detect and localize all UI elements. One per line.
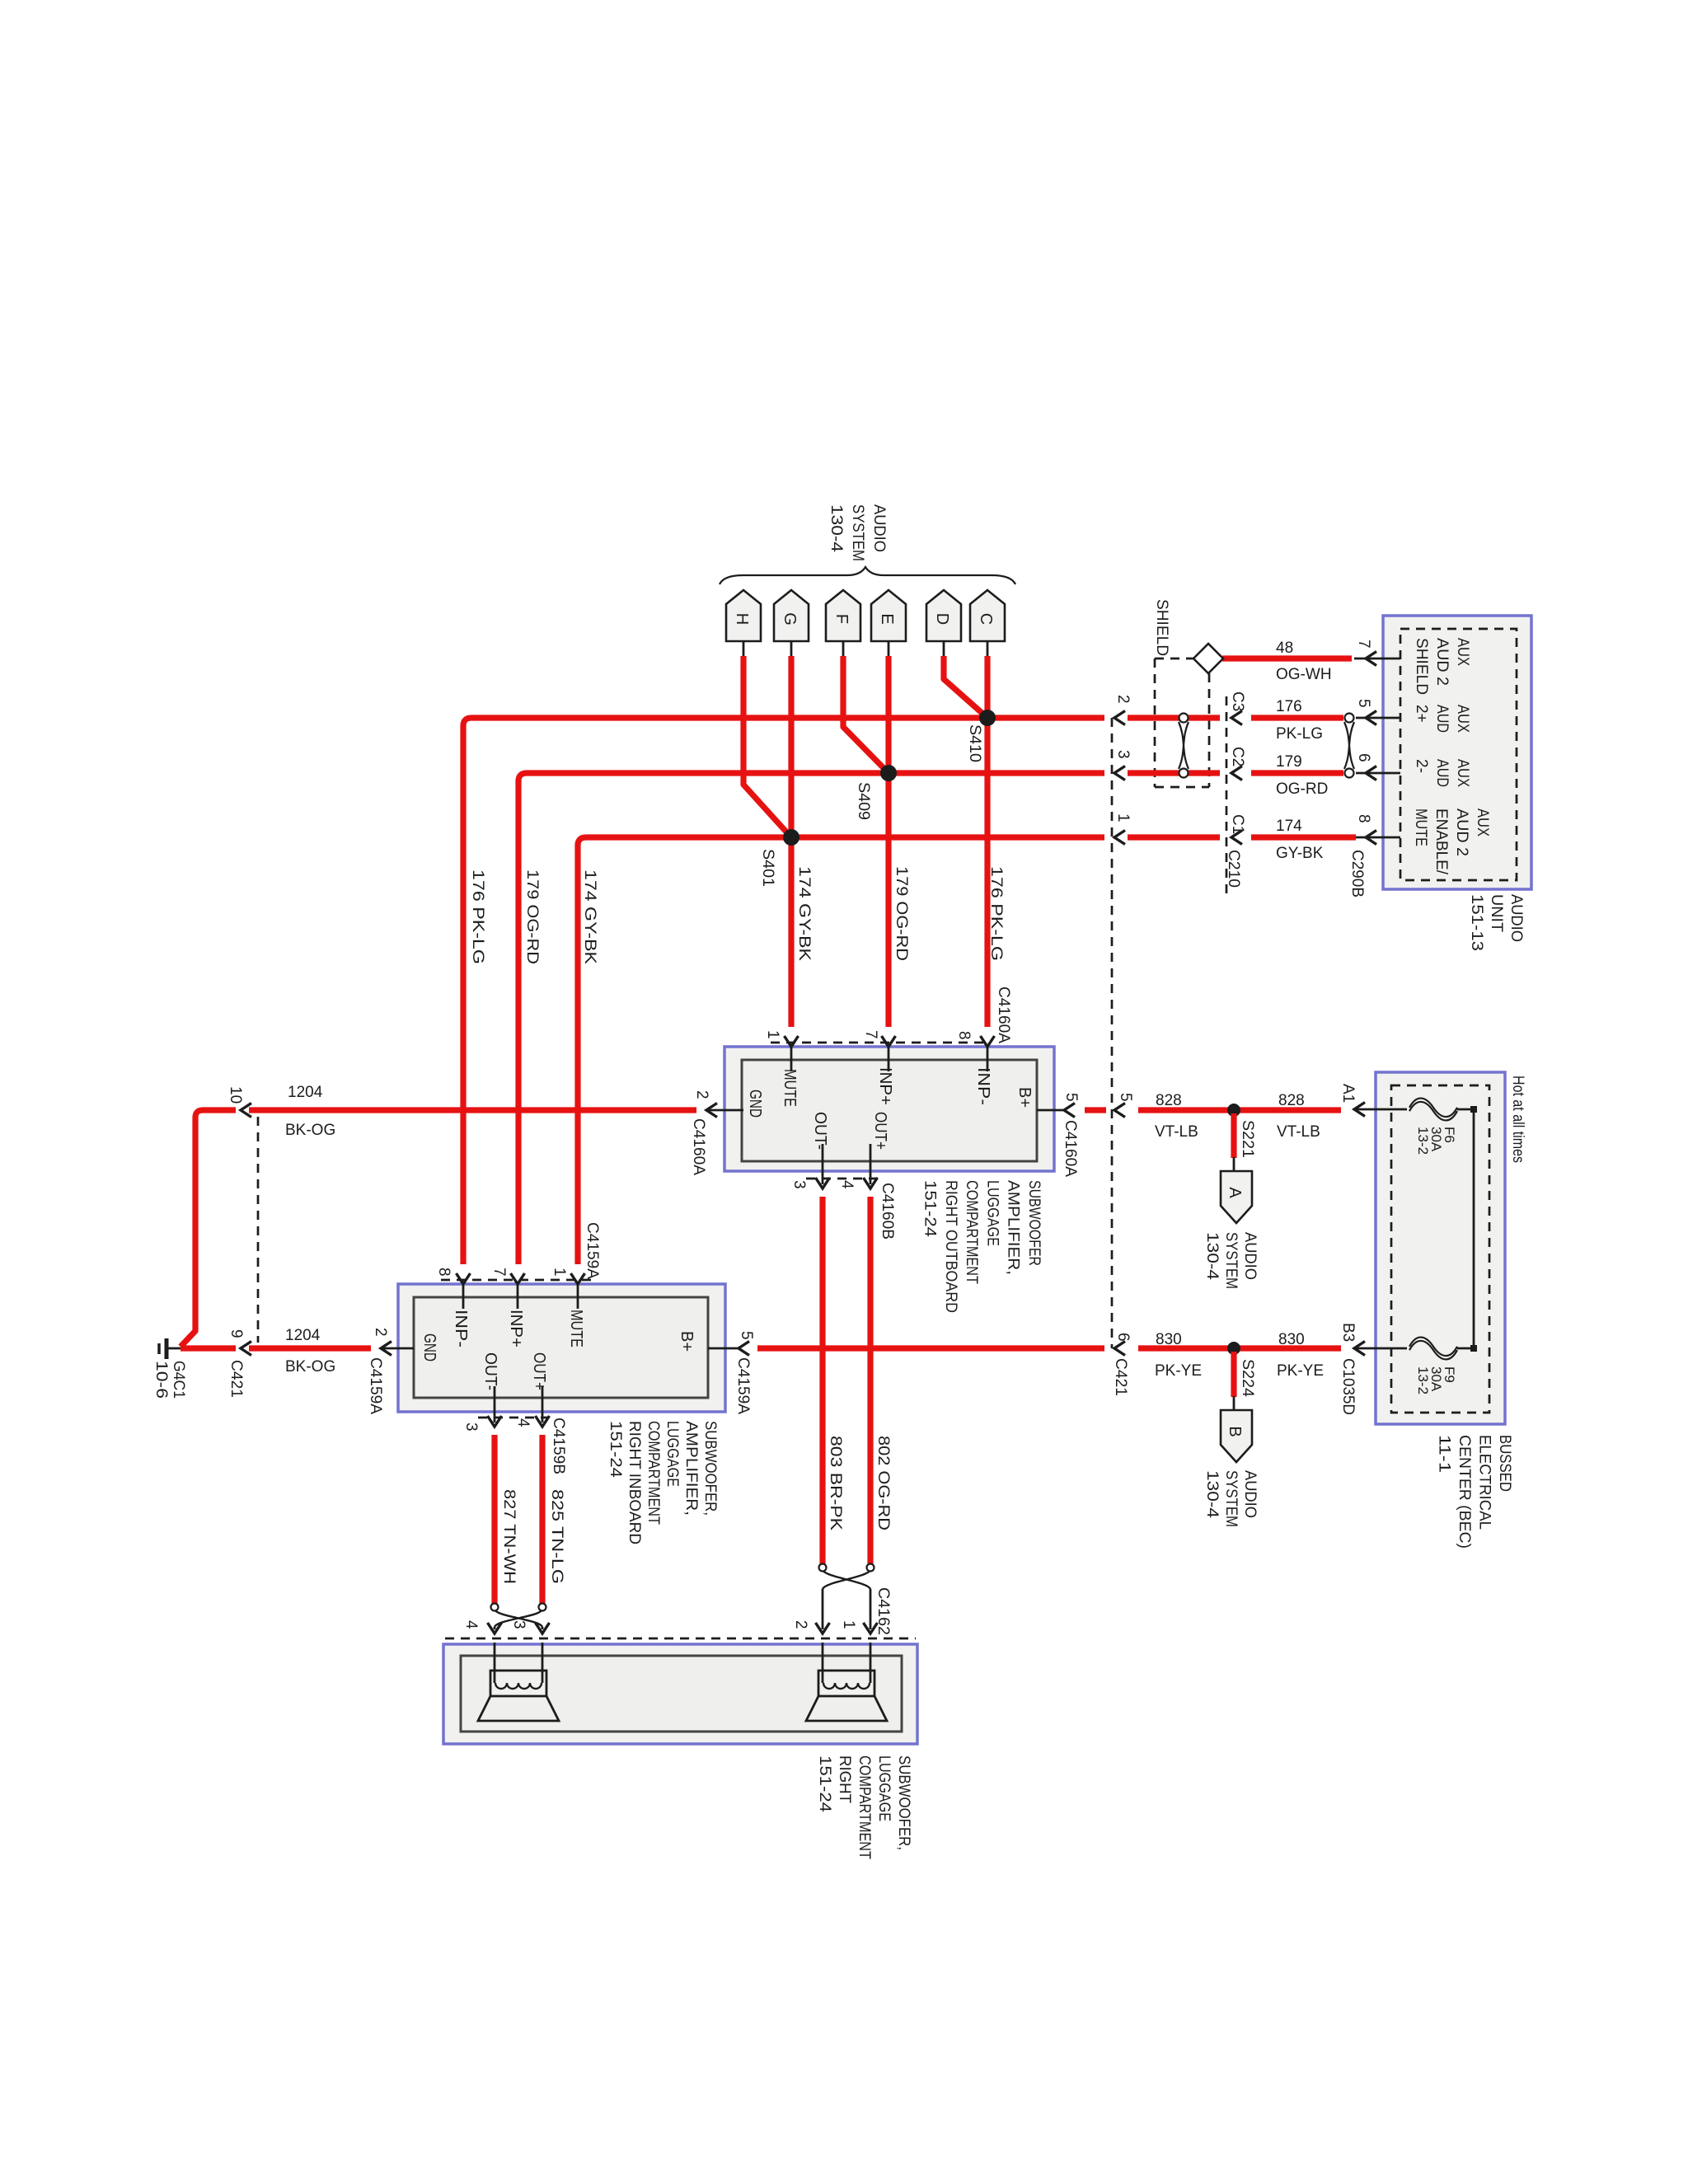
svg-text:PK-YE: PK-YE [1155, 1362, 1202, 1380]
svg-text:BK-OG: BK-OG [285, 1358, 335, 1376]
svg-text:PK-LG: PK-LG [1276, 725, 1323, 743]
svg-text:C1035D: C1035D [1339, 1358, 1357, 1415]
svg-text:OUT-: OUT- [811, 1112, 829, 1150]
svg-text:AUX: AUX [1454, 759, 1471, 787]
svg-text:OUT+: OUT+ [871, 1112, 889, 1150]
svg-text:C4160A: C4160A [995, 987, 1012, 1043]
svg-text:GND: GND [420, 1333, 438, 1361]
svg-text:C4162: C4162 [874, 1587, 892, 1635]
svg-text:5: 5 [1117, 1093, 1134, 1102]
svg-text:4: 4 [462, 1620, 480, 1629]
svg-text:AMPLIFIER,: AMPLIFIER, [1005, 1180, 1022, 1275]
svg-text:13-2: 13-2 [1415, 1127, 1431, 1155]
svg-text:151-24: 151-24 [921, 1180, 939, 1237]
svg-text:3: 3 [462, 1422, 480, 1432]
svg-text:H: H [733, 613, 751, 625]
svg-text:5: 5 [738, 1331, 755, 1340]
svg-text:C210: C210 [1225, 850, 1242, 888]
svg-text:S409: S409 [855, 782, 872, 820]
svg-text:4: 4 [838, 1180, 856, 1189]
svg-text:1: 1 [840, 1620, 857, 1629]
svg-text:AUD 2: AUD 2 [1453, 808, 1470, 856]
svg-text:C421: C421 [227, 1360, 245, 1398]
svg-text:SUBWOOFER,: SUBWOOFER, [701, 1421, 719, 1516]
svg-text:VT-LB: VT-LB [1155, 1123, 1198, 1141]
svg-text:C2: C2 [1229, 747, 1246, 766]
svg-text:174: 174 [1276, 818, 1302, 835]
svg-text:AUD 2: AUD 2 [1433, 638, 1451, 686]
svg-text:S224: S224 [1239, 1359, 1256, 1397]
svg-text:AUX: AUX [1474, 808, 1491, 837]
svg-text:7: 7 [862, 1030, 879, 1039]
svg-text:802 OG-RD: 802 OG-RD [874, 1436, 892, 1530]
svg-text:8: 8 [955, 1031, 973, 1040]
svg-text:SUBWOOFER,: SUBWOOFER, [895, 1755, 912, 1850]
svg-text:COMPARTMENT: COMPARTMENT [645, 1421, 662, 1525]
svg-text:48: 48 [1276, 640, 1293, 657]
svg-text:130-4: 130-4 [1203, 1470, 1221, 1518]
svg-text:1: 1 [1114, 813, 1132, 823]
svg-text:9: 9 [227, 1329, 245, 1338]
svg-text:151-24: 151-24 [816, 1755, 833, 1812]
svg-text:MUTE: MUTE [1412, 808, 1429, 846]
svg-text:1204: 1204 [285, 1327, 321, 1344]
svg-text:C4159A: C4159A [367, 1357, 384, 1414]
svg-text:INP-: INP- [974, 1067, 992, 1105]
svg-text:AUDIO: AUDIO [1241, 1470, 1259, 1518]
svg-text:5: 5 [1062, 1093, 1080, 1102]
svg-text:AUX: AUX [1454, 705, 1471, 733]
svg-text:RIGHT OUTBOARD: RIGHT OUTBOARD [942, 1180, 959, 1313]
svg-text:INP+: INP+ [507, 1310, 525, 1347]
svg-text:8: 8 [435, 1268, 452, 1277]
svg-text:AUD: AUD [1433, 705, 1451, 733]
svg-text:RIGHT INBOARD: RIGHT INBOARD [626, 1421, 643, 1544]
svg-text:AUDIO: AUDIO [870, 504, 888, 552]
svg-text:AUDIO: AUDIO [1241, 1232, 1259, 1280]
svg-text:S221: S221 [1239, 1120, 1256, 1158]
svg-text:1: 1 [764, 1030, 781, 1039]
svg-text:INP+: INP+ [876, 1067, 894, 1105]
svg-text:PK-YE: PK-YE [1277, 1362, 1324, 1380]
svg-text:C421: C421 [1112, 1358, 1129, 1396]
svg-text:Hot at all times: Hot at all times [1509, 1076, 1526, 1163]
svg-text:S410: S410 [966, 724, 983, 762]
svg-text:C3: C3 [1229, 691, 1246, 711]
svg-text:D: D [933, 613, 951, 625]
svg-text:C4160B: C4160B [879, 1183, 896, 1240]
svg-text:4: 4 [514, 1418, 532, 1427]
svg-text:S401: S401 [759, 849, 776, 887]
svg-text:2: 2 [792, 1620, 809, 1629]
svg-text:MUTE: MUTE [567, 1310, 585, 1347]
svg-text:B: B [1226, 1426, 1244, 1436]
svg-text:LUGGAGE: LUGGAGE [663, 1421, 681, 1487]
svg-text:1: 1 [551, 1268, 568, 1277]
svg-text:SUBWOOFER: SUBWOOFER [1025, 1180, 1043, 1266]
svg-text:AUDIO: AUDIO [1507, 894, 1525, 942]
svg-text:RIGHT: RIGHT [836, 1755, 853, 1803]
svg-text:BK-OG: BK-OG [285, 1122, 335, 1139]
svg-text:UNIT: UNIT [1488, 894, 1505, 932]
svg-text:830: 830 [1278, 1331, 1305, 1348]
svg-text:OUT+: OUT+ [530, 1352, 548, 1390]
svg-text:176 PK-LG: 176 PK-LG [469, 869, 486, 964]
svg-text:828: 828 [1156, 1092, 1182, 1109]
svg-text:179 OG-RD: 179 OG-RD [893, 866, 910, 961]
svg-text:3: 3 [1114, 750, 1132, 759]
svg-text:2: 2 [1114, 695, 1132, 704]
svg-text:AUX: AUX [1454, 638, 1471, 666]
svg-text:830: 830 [1156, 1331, 1182, 1348]
svg-text:C: C [977, 613, 995, 625]
svg-text:3: 3 [510, 1620, 527, 1629]
svg-text:176 PK-LG: 176 PK-LG [987, 866, 1005, 961]
svg-text:2+: 2+ [1413, 705, 1430, 723]
svg-text:10-6: 10-6 [152, 1361, 170, 1399]
svg-text:2: 2 [372, 1328, 389, 1337]
svg-text:7: 7 [490, 1268, 508, 1277]
svg-text:130-4: 130-4 [828, 504, 845, 552]
svg-text:6: 6 [1114, 1333, 1132, 1342]
svg-text:CENTER (BEC): CENTER (BEC) [1456, 1435, 1473, 1549]
svg-text:SHIELD: SHIELD [1413, 638, 1430, 695]
svg-text:OG-RD: OG-RD [1276, 780, 1328, 798]
svg-text:1204: 1204 [288, 1084, 323, 1101]
svg-text:SYSTEM: SYSTEM [1222, 1470, 1240, 1527]
svg-text:C4159A: C4159A [734, 1357, 752, 1414]
svg-text:G: G [781, 612, 799, 626]
svg-text:174 GY-BK: 174 GY-BK [581, 869, 598, 964]
svg-text:C4160A: C4160A [690, 1118, 707, 1175]
svg-text:828: 828 [1278, 1092, 1305, 1109]
svg-text:5: 5 [1355, 699, 1372, 708]
svg-text:174 GY-BK: 174 GY-BK [795, 866, 813, 961]
svg-text:13-2: 13-2 [1415, 1366, 1431, 1394]
svg-text:C4160A: C4160A [1062, 1120, 1079, 1177]
svg-text:11-1: 11-1 [1436, 1435, 1453, 1473]
svg-text:AUD: AUD [1433, 759, 1451, 787]
svg-text:803 BR-PK: 803 BR-PK [827, 1436, 844, 1530]
svg-text:2-: 2- [1413, 759, 1430, 773]
svg-text:SYSTEM: SYSTEM [849, 504, 866, 561]
svg-text:LUGGAGE: LUGGAGE [983, 1180, 1001, 1246]
svg-text:6: 6 [1355, 753, 1372, 762]
svg-text:ELECTRICAL: ELECTRICAL [1476, 1435, 1493, 1530]
svg-text:AMPLIFIER,: AMPLIFIER, [682, 1421, 700, 1516]
svg-text:LUGGAGE: LUGGAGE [875, 1755, 893, 1821]
svg-text:C4159A: C4159A [584, 1222, 601, 1279]
svg-text:151-24: 151-24 [607, 1421, 624, 1478]
svg-text:827 TN-WH: 827 TN-WH [500, 1489, 518, 1584]
svg-text:8: 8 [1355, 814, 1372, 823]
svg-text:GND: GND [746, 1090, 764, 1118]
svg-text:COMPARTMENT: COMPARTMENT [963, 1180, 980, 1284]
svg-text:ENABLE/: ENABLE/ [1432, 808, 1450, 875]
svg-text:GY-BK: GY-BK [1276, 845, 1324, 862]
svg-text:130-4: 130-4 [1203, 1232, 1221, 1280]
svg-text:C290B: C290B [1348, 850, 1366, 898]
svg-text:INP-: INP- [452, 1310, 470, 1347]
svg-text:B3: B3 [1339, 1323, 1357, 1342]
svg-text:VT-LB: VT-LB [1277, 1123, 1320, 1141]
svg-text:3: 3 [790, 1180, 808, 1189]
svg-text:A1: A1 [1339, 1084, 1357, 1103]
svg-text:B+: B+ [1015, 1087, 1034, 1108]
svg-text:176: 176 [1276, 698, 1302, 715]
svg-text:MUTE: MUTE [781, 1069, 799, 1107]
svg-text:C4159B: C4159B [550, 1418, 567, 1474]
svg-text:COMPARTMENT: COMPARTMENT [856, 1755, 873, 1859]
svg-text:BUSSED: BUSSED [1496, 1435, 1513, 1492]
svg-text:A: A [1226, 1187, 1244, 1198]
svg-text:10: 10 [227, 1086, 244, 1104]
svg-text:F: F [832, 614, 851, 624]
svg-text:825 TN-LG: 825 TN-LG [548, 1489, 565, 1584]
svg-text:151-13: 151-13 [1468, 894, 1485, 951]
svg-text:179 OG-RD: 179 OG-RD [523, 869, 541, 964]
svg-text:SYSTEM: SYSTEM [1222, 1232, 1240, 1289]
svg-text:OG-WH: OG-WH [1276, 666, 1332, 683]
svg-text:2: 2 [693, 1090, 710, 1099]
svg-text:B+: B+ [678, 1331, 696, 1352]
svg-text:SHIELD: SHIELD [1153, 599, 1170, 656]
svg-text:C1: C1 [1229, 814, 1246, 834]
svg-text:7: 7 [1355, 640, 1372, 649]
svg-text:OUT-: OUT- [481, 1352, 499, 1390]
svg-text:179: 179 [1276, 753, 1302, 771]
svg-text:E: E [878, 613, 896, 624]
svg-text:G4C1: G4C1 [170, 1361, 187, 1399]
